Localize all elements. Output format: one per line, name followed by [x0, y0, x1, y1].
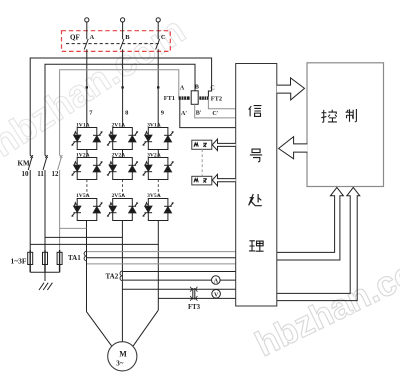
svg-text:A: A: [214, 278, 219, 284]
FT3 winding chevrons: [190, 287, 197, 301]
block arrow signal to trigger 2: [212, 174, 235, 186]
wire phase B column (node 8): [122, 49, 124, 127]
junction dot phase C: [157, 86, 159, 88]
control box: [307, 63, 384, 187]
svg-text:7: 7: [89, 110, 93, 117]
wire stub column 3 row1-row2: [157, 150, 159, 158]
transformer FT2 winding: [199, 96, 208, 99]
svg-text:9: 9: [161, 110, 165, 117]
wire TA2 secondary a: [123, 271, 236, 273]
thyristor module 3V5A: [143, 199, 174, 221]
svg-text:1V5A: 1V5A: [76, 193, 90, 199]
hanzi 理: [249, 241, 264, 251]
svg-text:A′: A′: [181, 111, 187, 117]
signal processing box: [236, 64, 277, 307]
fuse 2FU: [43, 252, 48, 264]
ammeter A: [212, 276, 221, 285]
thyristor module 3V1A: [143, 128, 174, 150]
motor funnel left: [87, 312, 112, 347]
wire tap net 2 to phase V: [45, 236, 122, 238]
hanzi 信 (signal box): [249, 106, 262, 117]
svg-text:3V1A: 3V1A: [147, 122, 161, 128]
trigger unit box 2: [192, 176, 212, 185]
svg-text:A: A: [180, 85, 185, 91]
wire motor phase U (column 1 down to funnel): [86, 221, 88, 312]
KM contact 12: [58, 155, 63, 252]
wire B' to signal box (grey): [195, 104, 236, 118]
svg-text:A: A: [90, 34, 95, 41]
fuse common bus: [30, 271, 59, 273]
hanzi 控: [321, 110, 337, 123]
transformer FT1 winding: [179, 91, 236, 128]
wire tap L3 (grey) to FT1 input A: [60, 70, 179, 156]
wire FT3 primary bottom: [158, 297, 235, 299]
wire C' to signal box (grey): [208, 100, 235, 109]
svg-text:M: M: [119, 350, 127, 359]
svg-text:10: 10: [22, 170, 30, 178]
block arrow bent B into control bottom: [277, 187, 360, 300]
svg-text:V: V: [214, 292, 219, 298]
trigger box 2 glyphs: [194, 179, 207, 183]
svg-text:12: 12: [52, 170, 60, 178]
terminal phase A: [85, 18, 89, 22]
thyristor module 3V2A: [143, 158, 174, 180]
wire net to signal box (grey): [87, 263, 236, 265]
svg-text:11: 11: [37, 170, 44, 178]
voltmeter V: [212, 290, 221, 299]
svg-text:TA2: TA2: [106, 272, 119, 280]
wire tap L1 to FT2 input C: [30, 58, 211, 156]
block arrow bent A into control bottom: [277, 187, 344, 260]
svg-text:1V2A: 1V2A: [76, 152, 90, 158]
block arrow control to signal: [279, 137, 308, 159]
svg-text:2V2A: 2V2A: [112, 152, 126, 158]
FT junction box: [191, 91, 198, 105]
wire TA2 secondary b through ammeter: [123, 279, 236, 281]
current transformer TA1: [84, 251, 86, 261]
fuse 3FU: [57, 252, 62, 264]
junction dot phase B: [121, 86, 123, 88]
hanzi 号: [250, 149, 262, 162]
current transformer TA2: [120, 271, 122, 281]
svg-text:FT3: FT3: [188, 304, 201, 311]
wire tap grey net to phase U: [60, 227, 87, 229]
fuse 1FU: [28, 252, 33, 264]
svg-text:TA1: TA1: [68, 254, 81, 262]
hanzi 制: [346, 109, 357, 122]
watermark hbzhan.com top-left: [0, 10, 193, 166]
KM contact 11: [43, 155, 48, 252]
wire FT3 primary top: [122, 288, 235, 290]
QF mechanical link (dashed): [66, 43, 160, 45]
ground stub: [44, 272, 46, 281]
svg-text:B: B: [125, 34, 130, 41]
svg-text:QF: QF: [70, 34, 80, 42]
wire tap net 1 to phase W: [30, 243, 158, 245]
ground symbol: [39, 283, 52, 290]
wire stub column 1 row1-row2: [86, 150, 88, 158]
svg-text:FT1: FT1: [164, 95, 175, 102]
wire tap L2 to FT1 input B: [45, 64, 195, 155]
wire motor phase V (column 2 down to motor): [121, 221, 123, 342]
KM contact 10: [28, 155, 33, 252]
svg-text:B′: B′: [196, 110, 202, 116]
QF pole B blade: [120, 22, 124, 50]
thyristor module 2V1A: [107, 128, 138, 150]
svg-text:3~: 3~: [116, 360, 124, 368]
wire phase A column (node 7): [86, 49, 88, 127]
dashed link column 1 row2-row3: [86, 180, 88, 199]
motor funnel right: [133, 310, 158, 346]
dashed link column 3 row2-row3: [157, 180, 159, 199]
svg-text:B: B: [195, 85, 199, 91]
terminal phase B: [121, 18, 125, 22]
QF pole C blade: [156, 22, 160, 50]
thyristor module 1V5A: [71, 199, 102, 221]
terminal phase C: [156, 18, 160, 22]
svg-text:1~3F: 1~3F: [11, 257, 27, 266]
wire motor phase W (column 3 down to funnel): [157, 221, 159, 311]
trigger unit box 1: [192, 140, 212, 149]
watermark hbzhan.com bottom-right: [249, 240, 400, 365]
svg-text:8: 8: [125, 110, 129, 117]
svg-text:2V5A: 2V5A: [112, 193, 126, 199]
wire TA1 secondary b: [87, 257, 236, 259]
thyristor module 2V2A: [107, 158, 138, 180]
svg-text:FT2: FT2: [211, 95, 222, 102]
svg-text:KM: KM: [18, 160, 30, 168]
hanzi 处: [249, 194, 262, 206]
svg-text:C′: C′: [212, 111, 218, 117]
wire A' to signal box: [180, 100, 236, 128]
wire TA1 secondary a (grey): [87, 251, 236, 253]
junction dot phase A: [86, 86, 88, 88]
block arrow signal to control (top): [277, 78, 305, 100]
svg-text:C: C: [210, 85, 214, 91]
wire stub column 2 row1-row2: [122, 150, 124, 158]
svg-text:2V1A: 2V1A: [112, 122, 126, 128]
wire phase C column (node 9): [157, 49, 159, 127]
dashed link column 2 row2-row3: [122, 180, 124, 199]
transformer FT3 core: [193, 288, 195, 300]
thyristor module 1V1A: [71, 128, 102, 150]
motor M circle: [108, 342, 137, 371]
thyristor module 1V2A: [71, 158, 102, 180]
block arrow signal to trigger 1: [212, 139, 235, 151]
QF pole A blade: [84, 22, 88, 50]
svg-text:C: C: [161, 34, 166, 41]
dashed link trigger boxes: [201, 149, 203, 176]
thyristor module 2V5A: [107, 199, 138, 221]
trigger box 1 glyphs: [194, 143, 207, 147]
svg-text:1V1A: 1V1A: [76, 122, 90, 128]
breaker QF enclosure (red dashed): [62, 31, 171, 52]
